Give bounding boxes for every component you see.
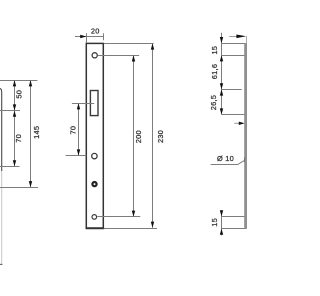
faceplate bottom edge (thick) [86,227,105,229]
dimension 26,5 [209,89,223,114]
svg-text:15: 15 [210,218,219,227]
right chain extension line y=43.0 [222,43,247,45]
arrow to edge view at y=123.3 [234,122,244,125]
svg-text:70: 70 [69,126,78,135]
svg-text:70: 70 [14,134,23,143]
svg-text:20: 20 [91,27,100,36]
dimension 20 [75,27,104,43]
dimension 15 (top right) [210,33,223,115]
svg-text:200: 200 [134,130,143,143]
right chain extension line y=228.8 [222,228,247,230]
arrow to edge view top [229,35,246,39]
hole H2 [92,153,97,158]
svg-text:50: 50 [14,90,23,99]
dimension 145 [29,80,41,187]
right chain extension line y=216.6 [222,216,246,218]
right chain extension line y=55.0 [222,55,246,57]
dimension 61,6 [210,64,223,90]
label Ø 10 with leader [211,154,247,165]
extension line y=166.8 [0,166,20,168]
hole H1 (top) [92,53,97,58]
hole H4 (bottom) [92,215,97,220]
slot (rectangular cutout) [90,91,98,116]
dimension 230 [104,43,165,228]
hole H3 (countersunk ring) [92,182,96,186]
left view outline (cropped lock case right edge) [0,89,2,265]
right chain extension line y=89.3 [222,89,242,91]
dimension 70 (slot to hole H2) [66,103,95,155]
edge view bar (side view of plate, cropped at right) [244,43,247,229]
extension line y=187.6 [0,187,38,189]
dimension 15 (bottom right) [210,210,223,235]
dimension 200 [97,55,143,217]
faceplate outline (front view) [86,43,103,228]
dimension 50 [13,80,23,110]
extension line y=110.6 [0,110,20,112]
dimension 70 (left chain) [13,111,23,167]
extension line y=80 (left view) [0,80,37,82]
right chain extension line y=114.6 [222,114,247,116]
svg-text:Ø 10: Ø 10 [217,154,234,163]
edge view top thin line [246,36,248,43]
svg-text:145: 145 [32,126,41,139]
svg-text:230: 230 [156,130,165,143]
svg-text:26,5: 26,5 [209,95,218,110]
svg-text:15: 15 [210,46,219,55]
svg-text:61,6: 61,6 [210,64,219,79]
